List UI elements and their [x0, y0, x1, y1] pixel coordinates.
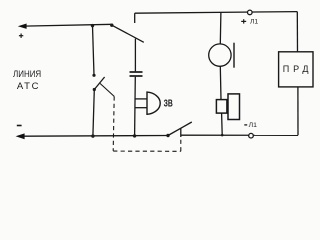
svg-text:ПРД: ПРД	[283, 64, 309, 74]
svg-text:ЗВ: ЗВ	[164, 98, 173, 109]
svg-text:Л1: Л1	[249, 122, 258, 129]
svg-text:Л1: Л1	[250, 18, 259, 25]
svg-text:АТС: АТС	[17, 81, 39, 92]
svg-text:ЛИНИЯ: ЛИНИЯ	[13, 69, 41, 80]
